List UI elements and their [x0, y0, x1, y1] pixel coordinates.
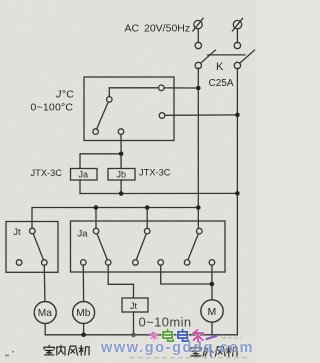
node: Jt coil / bottom rail: [131, 333, 136, 338]
Jt pole contact: [30, 228, 36, 234]
Jt blade: [33, 234, 43, 260]
wire: node down into Jb coil: [120, 154, 122, 169]
wire: contact 6 down to M node: [211, 265, 213, 284]
wire: M to bottom rail: [211, 322, 213, 335]
wire: Jb coil down to rail: [120, 180, 122, 194]
timer contact box Jt: [6, 222, 58, 273]
wire: timer coil to bottom rail: [133, 312, 135, 335]
breaker K pole 1 blade: [201, 50, 216, 63]
node: coil rail / right supply: [235, 191, 240, 196]
Ja pole 3 blade: [188, 234, 198, 260]
Ja pole 3: [197, 228, 203, 234]
wire: coil top rail: [80, 154, 121, 169]
thermostat terminal B: [159, 85, 165, 91]
node: E-terminal / right supply: [235, 113, 240, 118]
purple tail stroke: [207, 336, 217, 339]
pink glyph: [151, 332, 158, 340]
motor Mb: [73, 302, 95, 324]
scan grain overlay: [0, 0, 1, 1]
wire: node down to motor M: [211, 284, 213, 300]
wire: B to left supply: [164, 87, 198, 89]
node: Jb bottom / rail: [119, 191, 124, 196]
Jt spare contact: [16, 260, 22, 266]
node: contact4+6 to M: [210, 282, 215, 287]
green glyph: [163, 329, 173, 341]
wire: Ja coil down to rail: [79, 180, 81, 194]
power terminal N phase (slashed circle): [232, 18, 242, 31]
scan specks bottom-left: [5, 351, 14, 356]
wire: bottom return rail: [45, 334, 237, 336]
Ja contact 5: [184, 260, 190, 266]
wire: L terminal to breaker pole 1: [197, 29, 199, 43]
relay contact box Ja: [71, 221, 226, 272]
node: Mb / bottom rail: [81, 333, 86, 338]
wire: Jt NO contact to motor Ma: [43, 265, 46, 301]
node: pole1 / common rail: [94, 205, 99, 210]
Ja contact 3: [133, 260, 139, 266]
faint boundary dash under outdoor unit: [130, 338, 250, 358]
label outdoor fan unit: 室外风机: [191, 346, 237, 357]
motor Ma: [34, 302, 56, 324]
breaker K pole 2 contacts: [234, 42, 240, 48]
watermark url text: [101, 340, 254, 356]
thermostat terminal E: [159, 113, 165, 119]
node: B-terminal / left supply: [196, 86, 201, 91]
watermark colored logo glyphs: [151, 329, 217, 342]
thermostat box: [84, 77, 174, 141]
Ja pole 1: [93, 228, 99, 234]
relay coil Ja: [71, 169, 98, 181]
wire: D down to coil node: [120, 135, 122, 154]
breaker K pole 1 contacts: [195, 42, 201, 48]
Ja pole 2: [144, 228, 150, 234]
Ja contact 1: [81, 260, 87, 266]
wire: N terminal to breaker pole 2: [236, 29, 238, 43]
Ja contact 2: [105, 260, 111, 266]
Ja pole 2 blade: [136, 234, 146, 260]
wire: contact 4 to M node: [161, 265, 212, 284]
node: pole2 / common rail: [145, 205, 150, 210]
Jt NO contact: [42, 260, 48, 266]
breaker K mechanical link: [208, 54, 246, 56]
wire: contact 1 to motor Mb: [82, 265, 84, 301]
wire: coil bottom rail to right supply: [80, 192, 237, 194]
Ja contact 4: [158, 260, 164, 266]
timer coil box Jt: [122, 298, 148, 312]
magenta glyph: [193, 330, 204, 342]
wire: left supply line down from breaker: [197, 68, 199, 228]
Ja pole 1 blade: [97, 234, 107, 260]
thermostat contact C: [93, 129, 99, 135]
wire: right supply line down from breaker: [236, 68, 238, 335]
motor M: [201, 300, 223, 322]
node: pole3 / common rail: [196, 205, 201, 210]
wire: pole 1 stub: [95, 208, 97, 229]
blue glyph: [178, 329, 188, 341]
Ja contact 6: [209, 260, 215, 266]
node: thermostat out / coils: [119, 152, 124, 157]
wire: A up and right to terminal B: [109, 88, 158, 97]
wire: Mb to bottom rail: [83, 324, 85, 335]
thermostat contact D: [118, 129, 124, 135]
wire: pole 2 stub: [146, 208, 148, 229]
relay coil Jb: [108, 169, 135, 181]
wire: contact 2 to timer coil Jt: [108, 265, 133, 298]
thermostat blade: [97, 102, 109, 129]
wire: E to right supply: [165, 114, 238, 116]
breaker K pole 2 blade: [240, 50, 255, 63]
paper background: [0, 0, 256, 363]
power terminal L phase (slashed circle): [193, 18, 203, 31]
label indoor fan unit: 室内风机: [44, 345, 89, 355]
wire: Ma to bottom rail: [44, 324, 46, 335]
thermostat pivot contact A: [107, 97, 113, 103]
wire: common rail to switch poles: [32, 208, 198, 229]
